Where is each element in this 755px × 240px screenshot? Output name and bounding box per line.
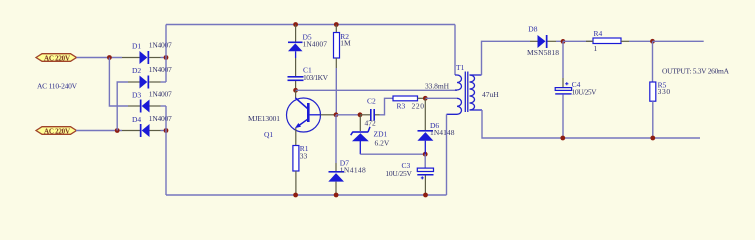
wire port2 to D4	[76, 130, 122, 132]
resistor R1 33	[293, 144, 309, 195]
svg-text:1N4148: 1N4148	[430, 128, 455, 137]
node ZD1 tap	[358, 112, 363, 117]
node bus dot D4	[164, 128, 169, 133]
svg-text:R3: R3	[397, 102, 406, 111]
svg-text:1N4007: 1N4007	[149, 90, 172, 99]
wire secondary top to D8	[482, 41, 531, 75]
transformer T1	[425, 25, 499, 196]
svg-text:AC 220V: AC 220V	[44, 127, 70, 135]
resistor R4 1	[586, 29, 629, 53]
svg-text:MSN5818: MSN5818	[527, 48, 559, 57]
wire aux bottom to rail	[446, 114, 448, 195]
node top rail R2 tap	[334, 22, 339, 27]
transistor Q1 MJE13001	[248, 90, 336, 145]
svg-text:D1: D1	[132, 42, 141, 51]
wire R4 to R5 node	[629, 40, 653, 42]
svg-text:1M: 1M	[340, 38, 351, 47]
diode D8 MSN5818	[527, 25, 563, 57]
svg-text:1: 1	[594, 44, 598, 53]
svg-text:C2: C2	[367, 97, 376, 106]
svg-text:AC 220V: AC 220V	[44, 54, 70, 62]
wire base junction to ZD1 node	[336, 114, 360, 116]
wire D8 to R4	[563, 40, 593, 42]
svg-text:1N4148: 1N4148	[340, 166, 366, 175]
node C4 bottom	[560, 136, 565, 141]
T1 core	[464, 72, 466, 113]
wire vertical from top AC to D3 row	[109, 58, 128, 107]
capacitor C2 472	[360, 97, 393, 128]
diode D3 1N4007	[128, 90, 172, 113]
wire vertical from bottom AC to D2 row	[117, 82, 128, 131]
wire port1 to D1	[77, 57, 123, 59]
node D8 cathode junction	[561, 39, 566, 44]
svg-text:T1: T1	[456, 63, 465, 72]
wire ZD1 to C3 node	[360, 153, 425, 155]
wire top rail	[166, 24, 455, 26]
node R5 tap	[650, 39, 655, 44]
svg-text:6.2V: 6.2V	[375, 138, 390, 147]
node top rail D5 tap	[293, 22, 298, 27]
wire bus top (D1-D2 rows to top rail)	[165, 25, 167, 83]
diode D6 1N4148	[417, 98, 454, 154]
resistor R2 1M	[334, 25, 352, 115]
svg-text:47uH: 47uH	[482, 90, 499, 99]
node bus dot D1	[164, 55, 169, 60]
node base junction	[334, 112, 339, 117]
svg-text:AC 110-240V: AC 110-240V	[37, 82, 78, 91]
node junction top AC	[107, 55, 112, 60]
svg-text:472: 472	[365, 119, 377, 128]
wire secondary bottom to output rail	[482, 110, 700, 138]
wire output top (open end)	[653, 40, 704, 42]
svg-text:10U/25V: 10U/25V	[385, 169, 412, 178]
svg-text:D8: D8	[528, 25, 537, 34]
svg-text:1N4007: 1N4007	[149, 41, 172, 50]
T1 primary winding 33.8mH	[454, 25, 456, 76]
diode D7 1N4148	[328, 159, 366, 196]
wire D7 column	[335, 115, 337, 163]
svg-text:OUTPUT: 5.3V 260mA: OUTPUT: 5.3V 260mA	[662, 66, 730, 75]
svg-text:330: 330	[658, 87, 671, 96]
wire bottom rail	[166, 194, 447, 196]
svg-text:10U/25V: 10U/25V	[572, 88, 598, 97]
svg-text:220: 220	[412, 102, 425, 111]
resistor R3 220	[393, 96, 425, 111]
svg-text:33: 33	[300, 151, 308, 160]
svg-text:Q1: Q1	[264, 130, 273, 139]
svg-text:MJE13001: MJE13001	[248, 114, 280, 123]
node collector junction	[293, 88, 298, 93]
T1 aux winding	[447, 98, 462, 114]
node junction bottom AC	[115, 128, 120, 133]
wire R3 node to aux winding	[425, 97, 457, 99]
capacitor C3 10U/25V	[385, 154, 433, 195]
wire collector to primary bottom	[296, 89, 457, 91]
svg-text:1N4007: 1N4007	[149, 114, 172, 123]
wire bus bottom (D3-D4 rows to bottom rail)	[165, 106, 167, 195]
node R5 bottom	[650, 136, 655, 141]
svg-text:ZD1: ZD1	[374, 130, 388, 139]
port P1 AC 220V (top left)	[36, 54, 77, 63]
diode D5 1N4007 (snubber)	[288, 25, 327, 77]
diode D4 1N4007	[122, 114, 172, 137]
node C3 junction	[423, 152, 428, 157]
svg-text:1N4007: 1N4007	[303, 40, 328, 49]
node D7 bottom rail	[334, 193, 339, 198]
node R3/D6 junction	[423, 96, 428, 101]
resistor R5 330	[650, 41, 671, 138]
svg-text:D4: D4	[132, 115, 141, 124]
zener ZD1 6.2V	[351, 115, 390, 154]
port P2 AC 220V (bottom left)	[36, 127, 77, 136]
diode D1 1N4007	[122, 41, 172, 65]
svg-text:33.8mH: 33.8mH	[425, 82, 450, 91]
svg-text:1N4007: 1N4007	[149, 65, 172, 74]
node C3 bottom rail	[423, 193, 428, 198]
svg-text:103/1KV: 103/1KV	[303, 73, 329, 82]
svg-text:D3: D3	[132, 91, 141, 100]
capacitor C4 10U/25V	[555, 41, 597, 138]
T1 secondary winding 47uH	[470, 75, 475, 110]
capacitor C1 103/1KV	[288, 66, 329, 91]
svg-text:D2: D2	[132, 66, 141, 75]
diode D2 1N4007	[128, 65, 172, 89]
node emitter bottom rail	[293, 193, 298, 198]
svg-text:R4: R4	[594, 29, 603, 38]
